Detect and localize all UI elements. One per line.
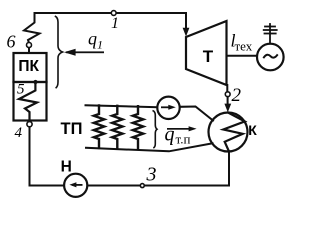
svg-text:К: К [248,122,257,138]
svg-text:q: q [165,124,175,146]
svg-text:т.п: т.п [176,132,191,147]
svg-text:ПК: ПК [18,58,39,75]
svg-text:5: 5 [17,82,25,98]
svg-text:1: 1 [97,37,103,51]
svg-text:1: 1 [111,15,119,32]
svg-text:тех: тех [235,39,253,54]
svg-text:3: 3 [146,164,157,186]
svg-text:q: q [88,28,97,48]
svg-text:4: 4 [15,125,23,141]
svg-text:2: 2 [232,85,242,106]
svg-text:ТП: ТП [61,120,83,138]
svg-text:Т: Т [203,47,214,66]
svg-text:6: 6 [7,32,16,52]
svg-text:Н: Н [61,158,72,175]
